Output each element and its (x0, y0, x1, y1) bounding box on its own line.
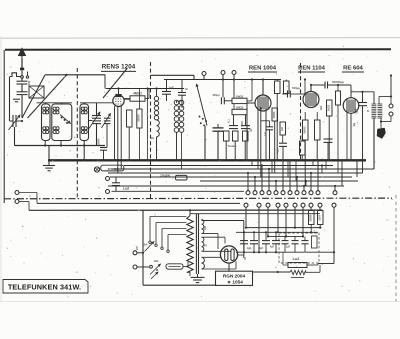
svg-text:·: · (383, 268, 385, 273)
svg-text:GΩ: GΩ (281, 127, 284, 131)
svg-text:TELEFUNKEN 341W.: TELEFUNKEN 341W. (8, 282, 81, 291)
svg-text:500μμ: 500μμ (292, 86, 300, 90)
svg-text:100: 100 (27, 80, 31, 85)
svg-text:1kΩ: 1kΩ (320, 106, 323, 111)
svg-text:20000: 20000 (273, 111, 276, 118)
svg-text:1MΩ2: 1MΩ2 (236, 94, 244, 98)
svg-text:1μF: 1μF (250, 127, 253, 132)
svg-text:450μμ: 450μμ (212, 94, 220, 97)
svg-text:50000: 50000 (98, 138, 101, 145)
svg-text:1kΩ2: 1kΩ2 (327, 104, 331, 111)
svg-text:RGN 2004: RGN 2004 (223, 274, 246, 279)
svg-text:·: · (382, 237, 384, 242)
svg-text:5μF: 5μF (355, 108, 359, 113)
svg-text:5000: 5000 (241, 121, 244, 127)
svg-text:4MΩ2: 4MΩ2 (133, 92, 142, 96)
svg-text:4μF: 4μF (276, 148, 280, 153)
svg-text:1nF: 1nF (168, 86, 174, 90)
svg-text:REN 1104: REN 1104 (298, 65, 326, 71)
svg-text:Rg↓: Rg↓ (353, 122, 356, 127)
svg-text:10Ω: 10Ω (154, 260, 159, 263)
svg-text:·: · (387, 254, 389, 259)
svg-text:20000: 20000 (310, 214, 313, 221)
svg-text:∗ 1054: ∗ 1054 (227, 279, 243, 284)
svg-text:D: D (367, 109, 369, 113)
svg-text:300: 300 (204, 225, 207, 230)
svg-text:1054: 1054 (319, 215, 322, 221)
svg-text:4V: 4V (204, 244, 207, 248)
svg-text:50000: 50000 (137, 114, 141, 122)
svg-text:Lω2: Lω2 (123, 187, 130, 191)
svg-text:4μF: 4μF (259, 247, 264, 250)
svg-text:2A·: 2A· (144, 242, 149, 246)
svg-text:17kΩW: 17kΩW (160, 173, 170, 177)
svg-text:470 4M: 470 4M (107, 167, 118, 171)
svg-text:Lω2: Lω2 (293, 257, 300, 261)
svg-text:Tonabn: Tonabn (228, 145, 237, 148)
svg-text:50000: 50000 (304, 126, 307, 134)
svg-text:RE 604: RE 604 (343, 65, 363, 71)
svg-text:REN 1004: REN 1004 (249, 65, 277, 71)
svg-text:1MΩ2: 1MΩ2 (236, 106, 244, 110)
svg-text:1μF: 1μF (286, 246, 291, 249)
svg-text:·: · (383, 202, 385, 207)
svg-text:RENS 1204: RENS 1204 (102, 64, 136, 71)
svg-text:0,1: 0,1 (228, 119, 231, 123)
svg-text:100: 100 (264, 131, 267, 136)
svg-text:4μF: 4μF (270, 246, 275, 249)
svg-text:·: · (388, 218, 390, 223)
svg-text:50000μμ: 50000μμ (332, 80, 344, 84)
svg-text:·: · (388, 284, 390, 289)
svg-text:4n: 4n (185, 87, 188, 91)
